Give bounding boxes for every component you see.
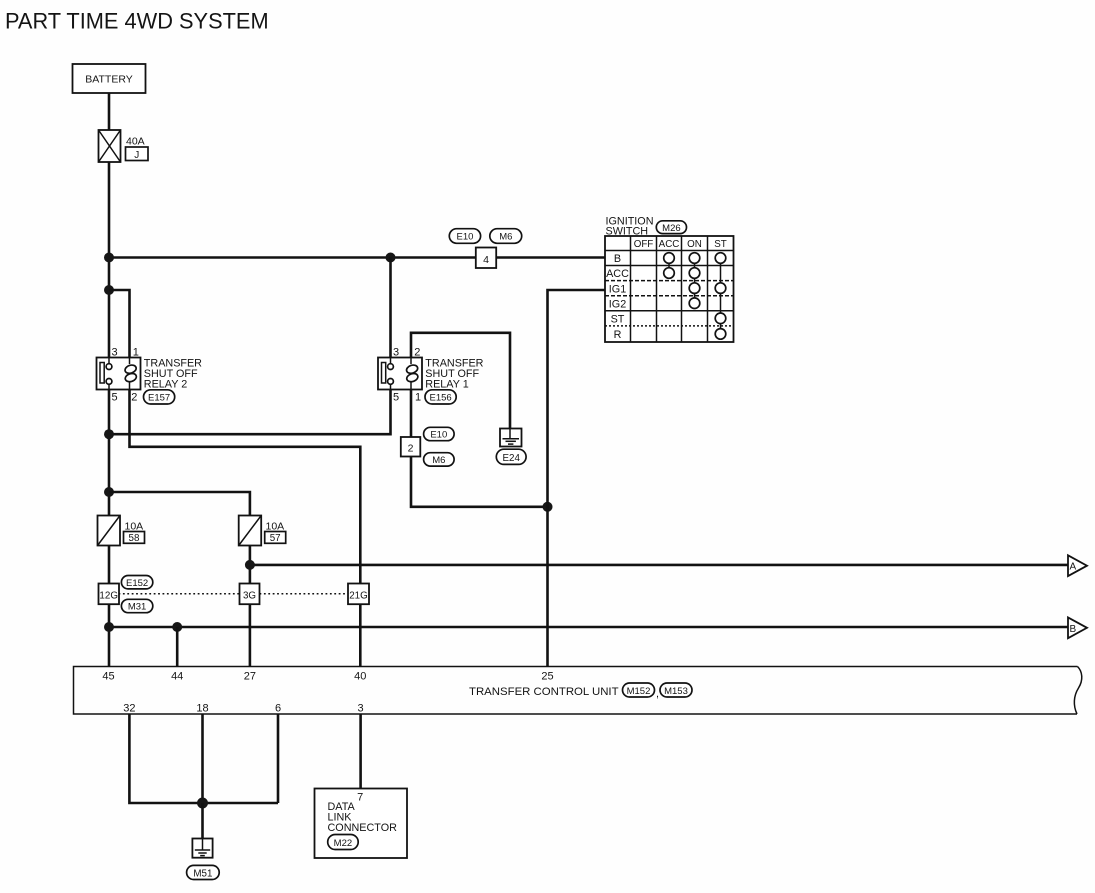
svg-text:E24: E24 [502,453,520,464]
connector oval M6 [424,453,455,466]
wire pin 6 down [277,714,280,803]
ground M51 [187,839,220,880]
wire pin 32 down [129,714,278,803]
svg-text:4: 4 [483,254,489,266]
wire fuse J to node A1 [108,162,111,358]
ignition switch IGNITION SWITCH (M26) [605,216,734,343]
relay TRANSFER SHUT OFF RELAY 2 (E157) [97,347,203,405]
switch contacts row IG1 [689,283,700,294]
wire relay1 pin5 to node A4 [109,390,391,435]
svg-text:PART TIME 4WD SYSTEM: PART TIME 4WD SYSTEM [5,9,269,34]
connector oval E10 [424,427,455,440]
svg-text:M152: M152 [627,686,651,697]
svg-text:E157: E157 [148,393,170,404]
svg-text:E156: E156 [430,393,452,404]
wire 12G to pin 45 [108,604,111,666]
switch contact row ST [715,313,726,324]
svg-text:ST: ST [714,239,727,250]
svg-text:ON: ON [687,239,702,250]
switch column link ACC [668,258,670,273]
switch contact row R [715,329,726,340]
node A1 [104,253,114,263]
node B1 [104,622,114,632]
svg-text:40A: 40A [126,136,145,148]
svg-text:2: 2 [408,443,414,455]
ground E24 [496,429,526,465]
svg-text:3: 3 [393,347,399,359]
connector oval M31 [121,599,152,612]
svg-text:M31: M31 [128,602,146,613]
fusible link J 40A [99,130,149,162]
svg-text:CONNECTOR: CONNECTOR [328,822,398,834]
svg-text:40: 40 [354,671,366,683]
wire pin 18 down [201,714,204,803]
connector 4 (E10/M6) on B wire [449,229,521,268]
connector joint dotted line [119,593,240,595]
connector oval M153 [660,683,692,697]
svg-text:A: A [1069,562,1076,573]
svg-text:B: B [1069,624,1076,635]
node A6 [543,502,553,512]
transfer control unit TRANSFER CONTROL UNIT (M152),(M153) [74,667,1082,715]
wire node A5 to fuse 57 [109,492,250,516]
svg-text:ACC: ACC [659,239,680,250]
svg-text:E10: E10 [457,232,474,243]
svg-text:3G: 3G [243,590,256,601]
wire bus A [250,564,1068,567]
switch contacts row B [664,253,675,264]
fuse 57 10A [239,516,286,546]
switch contacts row ACC [664,268,675,279]
node A5 [104,487,114,497]
wire battery to fuse J [108,93,111,131]
svg-text:M6: M6 [499,232,512,243]
svg-text:5: 5 [393,392,399,404]
svg-text:IG1: IG1 [609,283,626,295]
node B2 [172,622,182,632]
svg-text:2: 2 [131,392,137,404]
svg-text:3: 3 [112,347,118,359]
svg-text:25: 25 [541,671,553,683]
switch column link ST [720,258,722,334]
wire 3G to pin 27 [249,604,252,666]
wire fuse 58 to 12G [108,546,111,584]
wire bus B row y=257.5 [109,256,605,259]
connector 21G [348,584,369,605]
svg-text:45: 45 [102,671,114,683]
wire bus B [109,626,1068,629]
svg-text:1: 1 [415,392,421,404]
node A3 [104,285,114,295]
svg-text:2: 2 [414,347,420,359]
svg-text:M153: M153 [664,686,688,697]
connector 3G [240,584,260,605]
connector oval E152 [121,576,152,589]
svg-text:RELAY 1: RELAY 1 [425,379,468,391]
wire connector 2 to node A6 [411,457,548,507]
svg-text:44: 44 [171,671,183,683]
wire relay1 pin2 to ground E24 [411,333,510,430]
svg-text:,: , [656,688,659,700]
node A4 [104,429,114,439]
svg-text:M51: M51 [193,868,212,879]
svg-text:R: R [614,329,622,341]
wire 21G to pin 40 [359,604,362,666]
wire pin 3 to data link connector [359,714,362,789]
svg-text:ST: ST [611,313,625,325]
arrow A [1068,555,1087,576]
wire node G1 to ground M51 [201,803,204,840]
connector 12G [99,584,120,605]
wire node A3 to relay2 pin1 [109,290,130,358]
wire IG1 to pin 25 [548,290,606,667]
svg-text:7: 7 [357,792,363,804]
svg-text:OFF: OFF [634,239,654,250]
svg-text:RELAY 2: RELAY 2 [144,379,187,391]
battery B+ [73,64,146,93]
svg-text:M26: M26 [662,223,680,234]
svg-text:BATTERY: BATTERY [85,74,132,86]
svg-text:5: 5 [112,392,118,404]
svg-text:ACC: ACC [606,268,629,280]
wire relay2 pin5 down [108,390,111,516]
node A2 [386,253,396,263]
relay TRANSFER SHUT OFF RELAY 1 (E156) [378,347,484,405]
arrow B [1068,617,1087,638]
fuse 58 10A [98,516,145,546]
connector oval M22 [328,835,359,850]
switch column link ON [694,258,696,303]
connector 2 (E10/M6) [401,427,454,466]
svg-text:6: 6 [275,703,281,715]
svg-text:58: 58 [129,533,140,544]
svg-text:27: 27 [244,671,256,683]
switch contact row IG2 [689,298,700,309]
wire relay2 pin2 to connector 21G [130,390,361,584]
svg-text:21G: 21G [349,590,368,601]
ignition switch table grid [605,236,734,342]
svg-text:1: 1 [133,347,139,359]
connector oval M6 [490,229,522,244]
data link connector (M22) pin 7 [315,789,408,859]
svg-text:TRANSFER CONTROL UNIT: TRANSFER CONTROL UNIT [469,686,619,698]
svg-text:J: J [134,150,139,161]
svg-text:IG2: IG2 [609,298,626,310]
svg-text:M6: M6 [432,455,445,466]
wire node B2 to pin 44 [176,627,179,667]
wire node A2 to relay1 pin3 [389,258,392,358]
node A7 [245,560,255,570]
svg-text:E10: E10 [430,430,447,441]
svg-text:18: 18 [196,703,208,715]
svg-text:3: 3 [358,703,364,715]
svg-text:E152: E152 [126,578,148,589]
node G1 [197,798,208,809]
connector oval M152 [623,683,655,697]
connector oval E10 [449,229,480,244]
svg-text:32: 32 [123,703,135,715]
svg-text:M22: M22 [334,838,352,849]
svg-text:12G: 12G [99,590,118,601]
connector oval M26 [656,221,686,234]
wire fuse 57 to 3G [249,546,252,584]
wire relay1 pin1 to connector 2 [410,390,413,438]
svg-text:57: 57 [270,533,281,544]
svg-text:B: B [614,253,621,265]
